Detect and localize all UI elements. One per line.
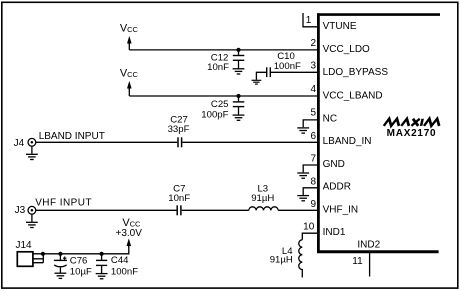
svg-text:100nF: 100nF <box>274 61 301 72</box>
svg-text:10nF: 10nF <box>207 62 229 73</box>
svg-text:33pF: 33pF <box>168 124 190 135</box>
svg-text:91µH: 91µH <box>251 193 274 204</box>
svg-text:100nF: 100nF <box>111 266 138 277</box>
svg-text:GND: GND <box>323 159 345 170</box>
svg-text:3: 3 <box>310 61 316 72</box>
svg-text:LBAND INPUT: LBAND INPUT <box>39 131 105 142</box>
svg-text:100pF: 100pF <box>201 110 228 121</box>
svg-text:C44: C44 <box>111 255 129 266</box>
svg-text:NC: NC <box>323 113 337 124</box>
svg-text:C76: C76 <box>70 256 88 267</box>
svg-text:10nF: 10nF <box>168 193 190 204</box>
svg-text:VCC_LDO: VCC_LDO <box>323 44 370 55</box>
svg-text:VTUNE: VTUNE <box>323 21 357 32</box>
svg-text:J14: J14 <box>16 240 33 251</box>
svg-text:CC: CC <box>127 70 138 79</box>
svg-text:LBAND_IN: LBAND_IN <box>323 136 372 147</box>
svg-text:8: 8 <box>310 176 316 187</box>
svg-text:2: 2 <box>310 38 316 49</box>
svg-text:VCC_LBAND: VCC_LBAND <box>323 91 383 102</box>
svg-text:VHF INPUT: VHF INPUT <box>35 198 92 209</box>
svg-text:6: 6 <box>310 131 316 142</box>
svg-text:5: 5 <box>310 108 316 119</box>
svg-text:IND2: IND2 <box>357 239 380 250</box>
svg-text:CC: CC <box>127 25 138 34</box>
svg-text:4: 4 <box>310 84 316 95</box>
svg-text:91µH: 91µH <box>270 254 293 265</box>
svg-text:+3.0V: +3.0V <box>115 228 142 239</box>
svg-text:7: 7 <box>310 154 316 165</box>
svg-text:MAX2170: MAX2170 <box>387 128 437 139</box>
svg-text:VHF_IN: VHF_IN <box>323 204 359 215</box>
svg-text:11: 11 <box>352 256 363 267</box>
svg-text:LDO_BYPASS: LDO_BYPASS <box>323 67 389 78</box>
svg-text:IND1: IND1 <box>323 227 346 238</box>
svg-text:1: 1 <box>306 15 312 26</box>
svg-text:10µF: 10µF <box>70 266 92 277</box>
svg-text:9: 9 <box>310 199 316 210</box>
svg-text:ADDR: ADDR <box>323 182 351 193</box>
svg-text:J4: J4 <box>14 138 25 149</box>
svg-text:J3: J3 <box>15 205 26 216</box>
svg-text:10: 10 <box>303 221 315 232</box>
svg-text:CC: CC <box>130 220 141 229</box>
